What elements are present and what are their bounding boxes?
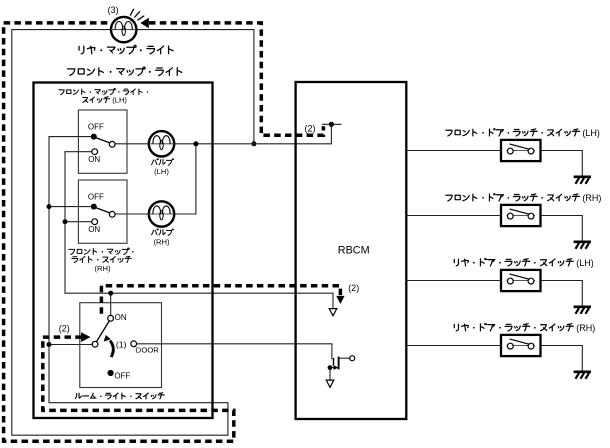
label rear door latch switch (RH) — [454, 323, 573, 330]
lamp: rear map light bulb — [111, 17, 136, 42]
rotation arrow (1) in room light switch — [104, 335, 114, 357]
switch front door latch switch (LH) — [501, 140, 541, 161]
transistor in RBCM — [328, 356, 355, 380]
svg-text:(RH): (RH) — [582, 193, 601, 203]
harness arrow at room light switch — [81, 332, 90, 342]
svg-text:(LH): (LH) — [112, 95, 127, 104]
wire: RBCM to front door latch switch (RH) — [406, 215, 501, 217]
light rays on rear map light — [130, 9, 143, 20]
svg-text:DOOR: DOOR — [136, 346, 160, 355]
svg-text:OFF: OFF — [88, 193, 104, 202]
box: front map light switch (RH) — [78, 180, 127, 243]
svg-text:RBCM: RBCM — [338, 244, 370, 256]
lamp: front map light bulb (RH) — [149, 201, 174, 226]
harness: dashed loop left/bottom with arrow to room switch (2) — [4, 23, 234, 441]
node: junction room ON riser — [108, 291, 113, 296]
harness: dashed top-right run to connector (2) — [149, 23, 323, 135]
label: front map light switch (RH) line1 — [69, 248, 134, 255]
wire: RH map switch OFF tap — [49, 206, 91, 208]
node: junction at room switch common rail — [47, 342, 52, 347]
node: junction ON rail — [63, 219, 68, 224]
terminal: open triangle below transistor — [326, 380, 334, 387]
svg-text:(2): (2) — [348, 283, 359, 293]
svg-text:(RH): (RH) — [94, 264, 110, 273]
box: front map light assembly — [34, 83, 213, 419]
label: front map light switch (LH) line2 — [83, 97, 110, 103]
svg-text:(2): (2) — [305, 123, 316, 133]
node: connector (2) dot on main lamp wire — [329, 122, 334, 127]
wire: rear door latch switch (RH) to ground — [541, 346, 583, 372]
node: junction OFF rail — [47, 204, 52, 209]
wire: DOOR terminal to RBCM transistor gate — [137, 344, 332, 360]
wire: room switch ON terminal riser — [110, 293, 112, 315]
wire: front door latch switch (LH) to ground — [541, 151, 583, 177]
wire: RH map switch ON tap — [65, 221, 92, 223]
node: junction of RH bulb branch — [193, 141, 198, 146]
switch front door latch switch (RH) — [501, 205, 541, 226]
label: bulb (RH) — [152, 229, 174, 235]
svg-text:ON: ON — [88, 225, 100, 234]
ground for front door latch switch (LH) — [574, 177, 591, 184]
svg-text:ON: ON — [88, 155, 100, 164]
label: front map light switch (LH) line1 — [59, 88, 148, 94]
switch rear door latch switch (RH) — [501, 335, 541, 356]
wire: RH bulb branch up to main lamp wire — [115, 144, 196, 214]
terminal: open triangle at RBCM room-ON input — [329, 309, 337, 316]
switch rear door latch switch (LH) — [501, 270, 541, 291]
svg-text:(RH): (RH) — [576, 323, 595, 333]
wire: RBCM to rear door latch switch (RH) — [406, 345, 501, 347]
label front door latch switch (LH) — [446, 129, 580, 136]
switch contacts: front map light switch (RH) — [91, 204, 115, 225]
ground for rear door latch switch (LH) — [574, 307, 591, 314]
label: bulb (LH) — [152, 159, 174, 165]
label: front map light — [67, 67, 181, 75]
switch contacts: room light switch — [92, 315, 137, 376]
wire: RBCM to front door latch switch (LH) — [406, 150, 501, 152]
wire: LH map switch OFF to left rail — [49, 137, 91, 345]
wire: rear door latch switch (LH) to ground — [541, 281, 583, 307]
label: front map light switch (RH) line2 — [72, 256, 132, 262]
node: junction of rear lamp feed and main lamp wire — [251, 141, 256, 146]
ground for rear door latch switch (RH) — [574, 372, 591, 379]
wire: rear map light feed down to main lamp wire — [137, 30, 254, 144]
wire: room light switch common feed — [49, 344, 92, 346]
svg-text:OFF: OFF — [88, 123, 104, 132]
box: RBCM — [296, 82, 407, 419]
wire: RBCM to rear door latch switch (LH) — [406, 280, 501, 282]
svg-text:(LH): (LH) — [576, 258, 594, 268]
label: rear map light — [79, 45, 173, 54]
harness: dashed run room switch to RBCM (2) — [101, 286, 340, 314]
svg-text:ON: ON — [115, 313, 127, 322]
switch contacts: front map light switch (LH) — [91, 134, 115, 155]
svg-text:(LH): (LH) — [154, 167, 169, 176]
wire: connector (2) tick at main lamp wire — [322, 123, 342, 125]
svg-text:(1): (1) — [116, 340, 127, 350]
wire: LH map switch ON rail down and into RBCM — [65, 152, 333, 309]
svg-text:(LH): (LH) — [582, 128, 600, 138]
label front door latch switch (RH) — [446, 194, 580, 201]
wire: main lamp feed from LH switch through bulbs to RBCM — [115, 124, 331, 144]
wire: rear map light return loop (left/bottom border) — [12, 30, 228, 436]
svg-text:(RH): (RH) — [153, 237, 169, 246]
label: room light switch — [75, 393, 164, 399]
harness arrow at rear map light — [140, 18, 148, 28]
svg-text:OFF: OFF — [114, 372, 130, 381]
harness arrow into RBCM — [336, 296, 344, 304]
label rear door latch switch (LH) — [454, 258, 573, 265]
wire: front door latch switch (RH) to ground — [541, 216, 583, 242]
svg-text:(2): (2) — [59, 324, 70, 334]
box: front map light switch (LH) — [78, 110, 127, 173]
ground for front door latch switch (RH) — [574, 242, 591, 249]
box: room light switch — [80, 303, 162, 388]
lamp: front map light bulb (LH) — [149, 131, 174, 156]
svg-text:(3): (3) — [108, 5, 119, 15]
